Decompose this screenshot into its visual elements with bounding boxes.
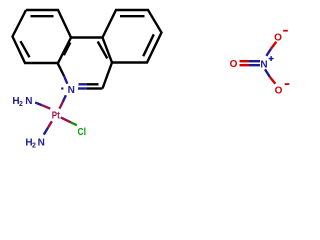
wire inner double bond CD bbox=[143, 34, 154, 56]
svg-text:N: N bbox=[68, 85, 75, 96]
wire bond Pt-NH2bottom maroon half bbox=[48, 121, 52, 127]
wire nitrate N=O lower line red half bbox=[240, 64, 250, 66]
wire bond N=C7 main blue half bbox=[78, 87, 87, 89]
wire bond N=C7 main black half bbox=[87, 87, 103, 89]
wire nitrate N-Obottom blue half bbox=[265, 69, 270, 77]
wire bond N=C7 inner blue half bbox=[79, 83, 88, 85]
wire bond ringN-Pt maroon half bbox=[60, 102, 63, 109]
wire inner double bond P3P4 bbox=[64, 42, 71, 55]
wire nitrate N=O lower line blue half bbox=[249, 64, 260, 66]
node nitrate O bottom minus charge bbox=[285, 83, 290, 85]
svg-text:N: N bbox=[260, 60, 267, 71]
wire inner double bond FE bbox=[98, 42, 108, 59]
svg-text:O: O bbox=[275, 86, 283, 97]
svg-text:N: N bbox=[25, 96, 32, 107]
node nitrate O top minus charge bbox=[283, 30, 288, 32]
wire nitrate N-Obottom red half bbox=[270, 77, 275, 84]
svg-text:O: O bbox=[274, 33, 282, 44]
wire inner double bond P5P6 bbox=[21, 41, 30, 57]
svg-text:Pt: Pt bbox=[52, 110, 61, 121]
wire bond E-C7 bbox=[103, 63, 113, 89]
wire bond Pt-Cl maroon half bbox=[61, 117, 71, 122]
wire nitrate N=O upper line red half bbox=[240, 60, 250, 62]
wire bond Pt-Cl green half bbox=[71, 122, 77, 125]
svg-text:2: 2 bbox=[19, 101, 23, 108]
node lone pair dot bbox=[61, 87, 63, 89]
wire bond N-P4 blue half bbox=[64, 76, 67, 84]
wire bond N-P4 black half bbox=[58, 63, 64, 76]
wire bond Pt-NH2bottom blue half bbox=[44, 128, 48, 135]
wire bond N=C7 inner black half bbox=[87, 83, 99, 85]
svg-text:O: O bbox=[230, 59, 238, 70]
wire nitrate N=O upper line blue half bbox=[249, 60, 260, 62]
wire nitrate N-Otop red half bbox=[271, 42, 276, 49]
wire inner double bond AB bbox=[120, 15, 145, 17]
wire inner double bond P1P2 bbox=[31, 15, 54, 17]
wire bond NH2top-Pt maroon half bbox=[42, 105, 50, 109]
wire bond ringN-Pt blue half bbox=[63, 95, 66, 102]
node nitrate plus charge bbox=[269, 58, 274, 60]
wire bond NH2top-Pt blue half bbox=[35, 103, 42, 106]
svg-text:2: 2 bbox=[32, 142, 36, 149]
wire central top bond P3-F bbox=[71, 36, 103, 38]
wire left ring outline bbox=[13, 10, 72, 63]
wire nitrate N-Otop blue half bbox=[266, 49, 271, 56]
svg-text:Cl: Cl bbox=[78, 127, 87, 138]
wire right ring outline bbox=[103, 10, 162, 63]
svg-text:N: N bbox=[38, 138, 45, 149]
